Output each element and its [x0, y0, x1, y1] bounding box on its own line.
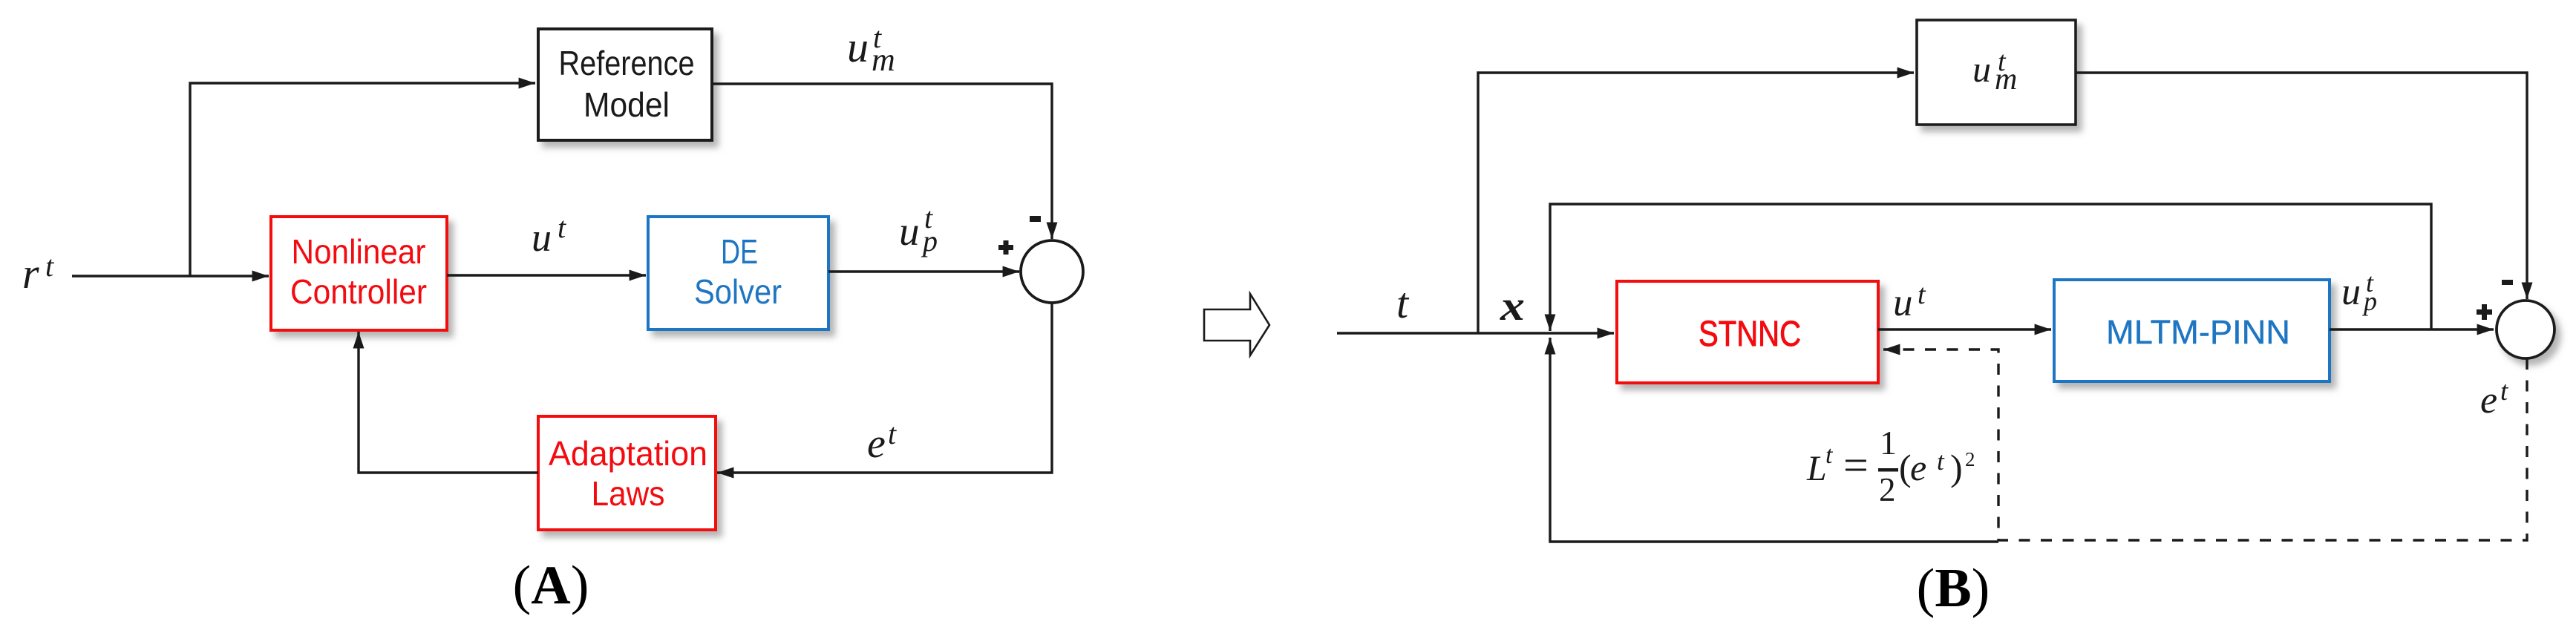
wire: Reference Model out to summing junction top: [712, 84, 1052, 239]
plus sign A: [998, 240, 1013, 255]
wire: MLTM-PINN out to summing junction left: [2330, 328, 2494, 330]
svg-text:t: t: [1998, 46, 2007, 77]
block: Adaptation Laws: [538, 416, 716, 530]
wire: Adaptation Laws out, up into Nonlinear Controller: [359, 332, 538, 473]
svg-text:MLTM-PINN: MLTM-PINN: [2106, 313, 2290, 351]
wire: u_m^t out, down to summing junction top: [2076, 73, 2527, 299]
svg-text:u: u: [1893, 281, 1913, 324]
svg-text:e: e: [2480, 379, 2497, 421]
svg-text:L: L: [1806, 449, 1827, 488]
wire: dashed e^t feedback into STNNC: [1883, 350, 2527, 540]
svg-text:u: u: [899, 209, 920, 254]
wire: STNNC out to MLTM-PINN: [1878, 328, 2051, 330]
wire: x feedback from u_p line, over the top, down into main line: [1550, 204, 2431, 331]
svg-text:2: 2: [1965, 448, 1975, 470]
summing junction A: [1021, 240, 1083, 303]
svg-text:t: t: [924, 201, 933, 234]
svg-text:DE: DE: [721, 232, 758, 271]
svg-text:Solver: Solver: [694, 272, 782, 311]
svg-text:u: u: [847, 23, 869, 71]
minus sign A: [1030, 216, 1041, 222]
svg-text:2: 2: [1879, 471, 1896, 508]
block: Reference Model: [538, 29, 712, 140]
svg-text:x: x: [1500, 283, 1525, 329]
label e^t (B): [2480, 376, 2509, 421]
block: u_m^t: [1917, 20, 2076, 125]
svg-text:t: t: [2500, 376, 2509, 407]
svg-text:e: e: [1910, 447, 1926, 488]
wire: t input main line: [1337, 332, 1614, 334]
svg-text:u: u: [2341, 271, 2361, 313]
svg-text:e: e: [867, 421, 886, 467]
svg-text:t: t: [2366, 268, 2374, 298]
svg-text:u: u: [1972, 48, 1991, 90]
svg-text:=: =: [1843, 441, 1869, 490]
summing junction B: [2497, 301, 2554, 358]
svg-text:t: t: [873, 21, 882, 54]
svg-text:t: t: [888, 417, 897, 450]
svg-text:(A): (A): [513, 555, 589, 616]
label u_p^t (B): [2341, 268, 2377, 316]
svg-text:Laws: Laws: [592, 474, 665, 513]
svg-text:Adaptation: Adaptation: [549, 434, 707, 473]
label u^t (B): [1893, 279, 1926, 324]
svg-text:t: t: [1825, 442, 1834, 469]
label u_m^t (A): [847, 21, 895, 78]
wire: branch up to Reference Model: [190, 83, 535, 276]
svg-text:1: 1: [1880, 424, 1897, 462]
svg-text:STNNC: STNNC: [1699, 315, 1801, 354]
label u_p^t (A): [899, 201, 938, 257]
wire: r^t input to Nonlinear Controller: [72, 275, 269, 277]
block: Nonlinear Controller: [271, 217, 447, 330]
svg-text:Controller: Controller: [290, 272, 427, 311]
wire: DE Solver out to summing junction left: [828, 270, 1019, 272]
plus sign B: [2477, 304, 2492, 320]
wire: t branch up to u_m^t box: [1478, 73, 1914, 333]
svg-text:r: r: [22, 249, 39, 298]
label r^t: [22, 249, 54, 298]
block: MLTM-PINN: [2054, 280, 2330, 381]
block: DE Solver: [648, 217, 828, 329]
label u^t (A): [532, 211, 566, 260]
wire: bottom solid loop up into main line: [1550, 338, 1998, 542]
svg-text:(B): (B): [1917, 558, 1990, 619]
svg-text:t: t: [45, 249, 54, 283]
block: STNNC: [1617, 281, 1878, 383]
svg-text:t: t: [1937, 447, 1945, 476]
label e^t (A): [867, 417, 897, 467]
svg-text:): ): [1950, 447, 1963, 488]
wire: summing junction down, left to Adaptation Laws: [717, 303, 1052, 473]
svg-text:t: t: [1918, 279, 1926, 310]
svg-text:Reference: Reference: [559, 44, 695, 82]
svg-text:t: t: [558, 211, 566, 244]
svg-text:Model: Model: [583, 85, 670, 124]
formula L^t = 1/2 (e^t)^2: [1806, 424, 1975, 508]
big hollow arrow: [1204, 294, 1269, 355]
minus sign B: [2502, 280, 2513, 285]
wire: Nonlinear Controller out to DE Solver: [447, 274, 646, 276]
svg-text:Nonlinear: Nonlinear: [292, 232, 426, 271]
svg-text:u: u: [532, 215, 552, 260]
svg-text:t: t: [1396, 279, 1410, 327]
